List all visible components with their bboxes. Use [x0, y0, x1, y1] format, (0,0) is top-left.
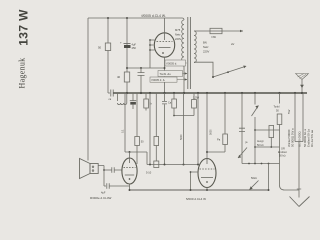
svg-text:NSl: NSl: [212, 35, 217, 39]
svg-text:137 W: 137 W: [17, 9, 31, 46]
coil L1 below bus: [118, 93, 127, 105]
svg-text:Tonbl. Δu: Tonbl. Δu: [160, 72, 172, 76]
resistor R9: [269, 126, 274, 148]
resistor R3 cathode: [117, 72, 130, 82]
wire right corner to bottom: [280, 130, 300, 190]
svg-text:M75: M75: [175, 28, 181, 32]
wire grid row V3: [147, 164, 198, 166]
resistor R10 chain: [274, 93, 282, 130]
wire mains top lead: [222, 30, 243, 32]
svg-text:R/000e d.CL4W: R/000e d.CL4W: [90, 196, 112, 200]
wire speaker grid link: [104, 169, 112, 171]
junction dot cathode row b: [140, 67, 142, 69]
svg-text:50 000Ω 5W a: 50 000Ω 5W a: [291, 128, 295, 147]
resistor R5 below bus: [172, 93, 177, 116]
capacitor C8 grid V2: [112, 167, 122, 172]
label Endrast: [278, 148, 287, 158]
capacitor C4 bus series: [108, 90, 113, 97]
svg-text:Netz: Netz: [203, 45, 209, 49]
svg-text:220V: 220V: [203, 50, 209, 54]
wire row 147: [254, 146, 279, 148]
svg-text:Hagenuk: Hagenuk: [18, 58, 27, 89]
junction dot cathode row c: [164, 67, 166, 69]
svg-text:+: +: [120, 41, 122, 45]
svg-text:220V: 220V: [175, 37, 181, 41]
label R11 rotated: [287, 109, 294, 147]
svg-text:BN: BN: [203, 41, 207, 45]
wire bottom bus: [130, 189, 269, 191]
resistor R7 mid: [154, 93, 159, 161]
svg-text:5000: 5000: [210, 129, 213, 135]
wire vertical node 2: [107, 18, 109, 93]
svg-text:f/0005 d.CL4 W.: f/0005 d.CL4 W.: [142, 14, 166, 18]
svg-text:5W: 5W: [287, 109, 291, 114]
capacitor C10 with wiper: [238, 93, 248, 164]
wire mains bottom: [194, 62, 213, 77]
wire lead R12: [302, 93, 304, 142]
wire row 130: [254, 129, 279, 131]
antenna A1: [296, 74, 309, 94]
svg-text:4µF: 4µF: [101, 191, 106, 195]
wire lead R11: [294, 93, 296, 142]
capacitor C9 output: [101, 183, 130, 194]
wire screen divider vertical: [124, 93, 126, 152]
label box pickup 3: [150, 77, 187, 82]
transformer T1 core: [188, 17, 191, 89]
svg-text:Pa: Pa: [217, 138, 221, 142]
potentiometer wiper bottom: [250, 177, 259, 190]
transformer T1 secondary winding: [194, 31, 196, 63]
resistor R6 mid: [135, 93, 144, 164]
wire V2 anode up: [129, 152, 131, 159]
label Ausgl: [257, 140, 264, 147]
wire B+ top rail: [88, 18, 184, 20]
svg-text:50 kΩ: 50 kΩ: [279, 155, 286, 158]
wire tap row: [242, 163, 280, 165]
wire vertical node 3: [126, 18, 128, 93]
resistor R8: [217, 93, 227, 152]
capacitor C5 electrolytic below bus: [130, 93, 136, 109]
svg-text:f/0005 d.: f/0005 d.: [167, 61, 178, 65]
label box pickup 2: [158, 71, 187, 77]
title Hagenuk 137W (rotated page label): [17, 9, 31, 89]
wire left vertical to speaker: [87, 18, 89, 161]
capacitor C3 cathode bypass: [138, 68, 145, 93]
svg-text:5-10: 5-10: [146, 171, 152, 175]
wire V1 grid leads: [149, 39, 154, 68]
svg-text:40: 40: [117, 75, 121, 79]
value label C2: [132, 43, 137, 50]
wire V3 bottom: [206, 188, 208, 191]
junction dots bottom bus: [129, 189, 270, 191]
junction dot top rail left: [107, 17, 109, 19]
wire mains top: [194, 30, 210, 32]
svg-text:Tonbl: Tonbl: [274, 106, 280, 109]
svg-text:aV: aV: [231, 42, 234, 46]
arrow mains top: [240, 30, 243, 33]
wire V1 anode: [164, 18, 166, 34]
svg-text:50 kΩ: 50 kΩ: [257, 144, 264, 147]
resistor R2 on node2: [105, 43, 110, 51]
wire screen feed V3: [197, 93, 199, 165]
resistor R4 below bus: [144, 93, 152, 111]
ground earth symbol: [290, 189, 310, 207]
tube V2: [122, 158, 137, 184]
svg-text:Ausgl.: Ausgl.: [257, 140, 264, 143]
junction dot V2 anode: [129, 151, 131, 153]
tube V3: [198, 159, 216, 188]
resistor R13: [173, 93, 196, 116]
junction dot anode tap: [206, 151, 208, 153]
wire V2 cathode down: [129, 184, 131, 190]
wire down to bottom bus: [268, 164, 270, 191]
svg-text:R1-1a 5W aa: R1-1a 5W aa: [310, 130, 314, 147]
svg-text:Netz: Netz: [175, 33, 181, 37]
label T1 left: [175, 28, 181, 41]
wire mid vertical: [149, 93, 151, 165]
capacitor C6 coupling: [162, 93, 172, 165]
wire V1 cathode down: [164, 57, 166, 93]
fuse F1: [210, 28, 222, 39]
wire V3 cathode lead: [190, 171, 199, 190]
label box pickup 1: [165, 60, 187, 66]
svg-text:50: 50: [98, 46, 102, 50]
wire V3 anode: [206, 93, 208, 159]
svg-text:450: 450: [132, 46, 137, 50]
label mains: [203, 41, 234, 54]
wire join resistors: [295, 142, 303, 198]
wire dropper: [183, 93, 185, 165]
svg-text:0,1: 0,1: [121, 129, 124, 133]
svg-text:5/000 d.CL4 W: 5/000 d.CL4 W: [186, 197, 206, 201]
wire V3 anode tap: [207, 151, 225, 153]
svg-text:5000: 5000: [180, 134, 183, 140]
wiper arrow upper right: [252, 93, 259, 164]
svg-text:50kΩ: 50kΩ: [251, 177, 257, 180]
junction dot speaker link: [103, 169, 105, 171]
junction dot cathode row: [126, 67, 128, 69]
capacitor C2 electrolytic: [120, 41, 131, 49]
wire to V2 anode: [125, 152, 147, 165]
junction dots on bus: [126, 92, 303, 94]
speaker LS: [80, 159, 99, 179]
svg-text:1,5W: 1,5W: [193, 96, 200, 100]
wire chassis bus: [113, 92, 307, 94]
junction dots grid row: [149, 164, 199, 166]
transformer T1 primary winding: [182, 20, 184, 93]
trimmer C7: [146, 161, 159, 175]
label R12 rotated: [297, 129, 314, 147]
switch S1: [212, 66, 247, 79]
junction dot top rail right: [126, 17, 128, 19]
wire speaker top: [98, 166, 104, 187]
tube V1: [154, 33, 174, 57]
wire cathode row: [127, 67, 165, 69]
svg-text:f/0005 d. Δ: f/0005 d. Δ: [152, 78, 165, 82]
